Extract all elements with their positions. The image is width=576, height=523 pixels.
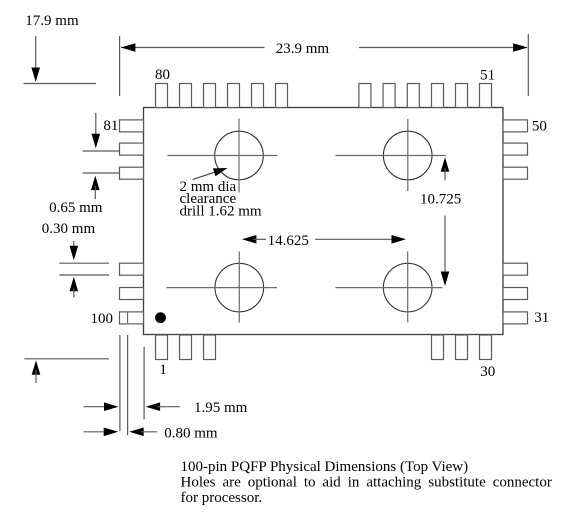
- svg-text:50: 50: [532, 119, 547, 135]
- svg-text:1: 1: [159, 362, 167, 378]
- svg-text:for processor.: for processor.: [181, 490, 263, 506]
- svg-text:17.9 mm: 17.9 mm: [25, 13, 79, 29]
- svg-text:0.30 mm: 0.30 mm: [42, 221, 96, 237]
- svg-text:80: 80: [155, 67, 170, 83]
- svg-text:10.725: 10.725: [420, 191, 461, 207]
- svg-text:1.95 mm: 1.95 mm: [194, 400, 248, 416]
- svg-text:100: 100: [91, 311, 114, 327]
- svg-text:31: 31: [534, 310, 549, 326]
- svg-text:drill 1.62 mm: drill 1.62 mm: [180, 203, 262, 219]
- svg-text:81: 81: [103, 118, 118, 134]
- svg-text:30: 30: [480, 364, 495, 380]
- svg-text:51: 51: [480, 68, 495, 84]
- svg-text:23.9 mm: 23.9 mm: [276, 41, 330, 57]
- svg-text:0.80 mm: 0.80 mm: [164, 426, 218, 442]
- svg-text:0.65 mm: 0.65 mm: [49, 200, 103, 216]
- svg-text:Holes are optional to aid in a: Holes are optional to aid in attaching s…: [181, 475, 552, 491]
- svg-text:14.625: 14.625: [268, 233, 309, 249]
- svg-text:100-pin PQFP Physical Dimensio: 100-pin PQFP Physical Dimensions (Top Vi…: [181, 459, 469, 475]
